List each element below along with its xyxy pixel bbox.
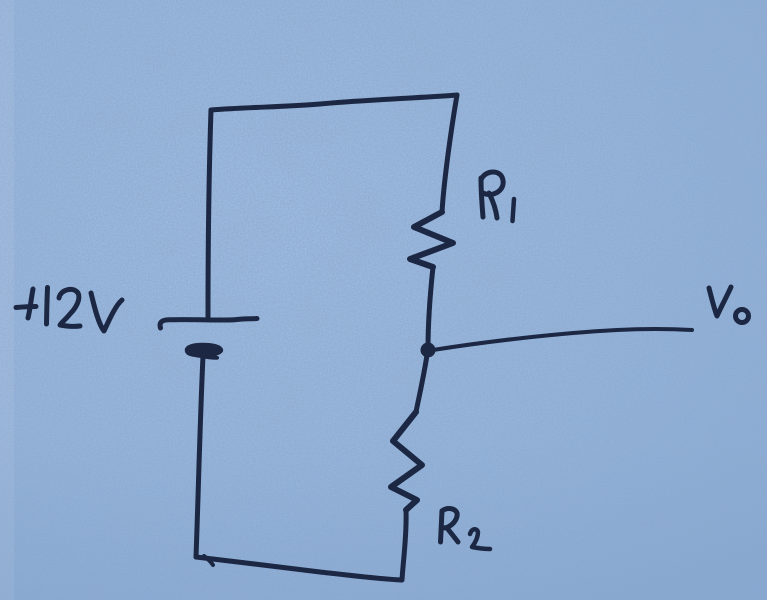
battery V1 bottom plate: [186, 344, 222, 359]
node junction dot: [421, 343, 436, 358]
label +12V digit 2: [59, 289, 80, 326]
label +12V plus sign: [28, 289, 33, 318]
battery V1 top plate: [160, 319, 257, 329]
wire top horizontal: [211, 95, 457, 110]
wire right vertical upper: [442, 95, 457, 212]
resistor R1 zigzag: [410, 212, 453, 267]
label Vo letter V: [709, 287, 731, 316]
wire node to Vo output: [433, 329, 692, 350]
wire left vertical lower: [196, 356, 203, 557]
label R1 letter R: [481, 178, 483, 217]
label R2 letter R: [441, 511, 443, 542]
resistor R2 zigzag: [391, 412, 422, 510]
wire bottom horizontal: [196, 557, 401, 580]
wire R2 to bottom: [402, 510, 406, 580]
label +12V letter V: [91, 293, 122, 331]
tick at bottom-left corner: [204, 556, 213, 565]
label R1 subscript 1: [513, 199, 515, 221]
label +12V digit 1: [47, 288, 48, 325]
wire R1 to node: [428, 267, 433, 349]
wire left vertical upper: [208, 110, 211, 317]
label R2 subscript 2: [470, 529, 490, 549]
label Vo subscript o: [736, 310, 749, 323]
wire node to R2: [416, 355, 427, 412]
